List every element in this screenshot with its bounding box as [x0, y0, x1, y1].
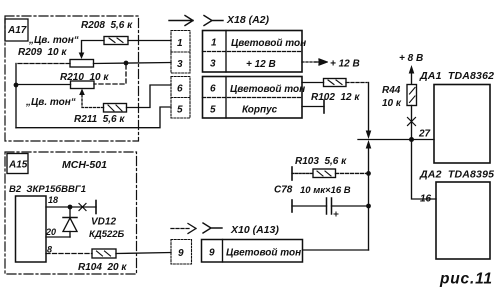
resistor R104 body — [92, 249, 116, 258]
svg-text:1: 1 — [211, 38, 217, 49]
svg-text:R208 5,6 к: R208 5,6 к — [81, 20, 133, 31]
wire R210 left to rail — [16, 84, 71, 86]
svg-text:Цветовой тон: Цветовой тон — [231, 38, 306, 49]
wire R211 right to pin 6 — [127, 85, 172, 108]
svg-text:рис.11: рис.11 — [439, 271, 493, 288]
connector plug pin column X18 — [171, 31, 190, 74]
svg-text:9: 9 — [209, 248, 215, 259]
resistor R211 body — [104, 104, 127, 113]
svg-text:6: 6 — [177, 84, 183, 95]
resistor R103 body — [313, 169, 336, 178]
svg-text:3: 3 — [177, 59, 183, 70]
svg-text:X10 (А13): X10 (А13) — [230, 224, 279, 236]
wire R102 right and down — [346, 82, 367, 84]
capacitor C78 plates — [326, 198, 328, 214]
wire pin 20 — [46, 236, 70, 238]
wiper arrow of R209 — [79, 53, 85, 60]
svg-text:КД522Б: КД522Б — [89, 229, 125, 240]
wire R44 to cross — [411, 106, 413, 140]
svg-text:9: 9 — [178, 248, 184, 259]
arrow plug X10 dashed — [171, 228, 190, 230]
terminal tick R103 — [291, 167, 293, 180]
svg-text:A15: A15 — [8, 160, 28, 171]
node junction diode top — [68, 205, 73, 210]
svg-text:В2 ЗКР15бВВГ1: В2 ЗКР15бВВГ1 — [9, 184, 86, 195]
svg-text:18: 18 — [48, 195, 58, 205]
table row line 1 — [203, 51, 303, 53]
wire C78 left — [292, 205, 327, 207]
arrow up +8 В — [411, 69, 413, 84]
connector X18 table group 1 — [203, 31, 303, 73]
cross mark pin18 — [79, 204, 86, 211]
wire R208 left to R209 wiper — [82, 41, 105, 54]
wire R209 right to pin 3 — [94, 63, 172, 64]
node junction R103 — [366, 171, 371, 176]
svg-text:10 к: 10 к — [382, 98, 402, 109]
svg-text:VD12: VD12 — [91, 217, 116, 228]
wire pin 18 — [46, 206, 96, 208]
resistor R44 body — [407, 85, 417, 106]
svg-text:3: 3 — [210, 59, 216, 70]
module A17 dash-dot border — [5, 16, 139, 141]
svg-text:10 мк×16 В: 10 мк×16 В — [300, 185, 351, 196]
socket fork symbol X10 — [203, 223, 222, 233]
connector X10 table — [202, 240, 303, 263]
svg-text:27: 27 — [418, 129, 431, 140]
svg-text:1: 1 — [177, 38, 183, 49]
wire R104 to plug 9 — [116, 253, 171, 254]
module A17 label box — [5, 19, 28, 41]
wire R103 left — [292, 172, 313, 174]
potentiometer R210 body — [71, 81, 95, 89]
wire +12 В out — [302, 61, 317, 63]
svg-text:МСН-501: МСН-501 — [62, 159, 107, 171]
svg-text:X18 (A2): X18 (A2) — [226, 14, 270, 26]
wire left rail down — [15, 64, 17, 128]
cross mark X — [408, 118, 416, 126]
arrow plug X18 — [169, 16, 193, 26]
svg-text:Корпус: Корпус — [242, 105, 278, 116]
capacitor C78 polarity mark — [334, 212, 338, 216]
resistor R102 body — [324, 79, 347, 87]
wire R210 wiper down and to R211 — [82, 95, 104, 108]
potentiometer R209 body — [70, 60, 94, 68]
diode VD12 — [69, 207, 71, 218]
svg-text:R104 20 к: R104 20 к — [78, 262, 127, 273]
IC DA2 body — [436, 182, 490, 259]
wire to pin 16 — [412, 140, 437, 200]
svg-text:Цветовой тон: Цветовой тон — [226, 248, 301, 259]
wire X10 right to vertical — [303, 249, 369, 251]
svg-text:R103 5,6 к: R103 5,6 к — [295, 156, 347, 167]
node junction pin27 — [409, 137, 414, 142]
wire vertical to X10 — [368, 147, 370, 250]
svg-text:R209 10 к: R209 10 к — [18, 47, 67, 58]
module A15 dash-dot border — [5, 152, 137, 274]
svg-text:+ 8 В: + 8 В — [399, 53, 423, 64]
svg-text:+ 12 В: + 12 В — [246, 59, 276, 70]
arrow up below node — [366, 140, 372, 149]
node junction rail at R210 — [14, 83, 19, 88]
device B2 body — [16, 196, 47, 262]
svg-text:A17: A17 — [7, 25, 27, 36]
wire Корпус terminal — [302, 106, 324, 108]
node junction R209 right — [124, 61, 129, 66]
wire bottom to pin 5 — [16, 107, 171, 128]
svg-text:С78: С78 — [274, 185, 293, 196]
resistor R208 body — [104, 37, 128, 45]
svg-text:Цветовой тон: Цветовой тон — [230, 84, 305, 95]
svg-text:+ 12 В: + 12 В — [330, 59, 360, 70]
svg-text:ДА1 TDA8362: ДА1 TDA8362 — [419, 70, 494, 82]
svg-text:6: 6 — [210, 84, 216, 95]
table divider column — [225, 31, 227, 73]
svg-text:5: 5 — [210, 105, 216, 116]
terminal tick pin18 — [95, 201, 97, 214]
svg-text:„Цв. тон“: „Цв. тон“ — [25, 97, 76, 108]
socket fork symbol X18 — [204, 16, 223, 26]
arrow down into node — [366, 131, 372, 140]
svg-text:„Цв. тон“: „Цв. тон“ — [28, 35, 79, 46]
wire pin 27 horizontal — [358, 139, 434, 141]
svg-text:R211 5,6 к: R211 5,6 к — [74, 114, 125, 125]
wire C78 right — [332, 205, 369, 207]
wiper arrow of R210 — [79, 89, 85, 96]
wire R209 left to rail — [16, 63, 70, 65]
connector X18 table group 2 — [203, 77, 303, 119]
table row line 2 — [203, 97, 303, 99]
svg-text:R102 12 к: R102 12 к — [311, 92, 360, 103]
svg-text:ДА2 TDA8395: ДА2 TDA8395 — [419, 169, 494, 181]
terminal tick C78 — [291, 200, 293, 212]
svg-text:20: 20 — [45, 227, 56, 237]
wire pin 8 to R104 — [46, 253, 92, 255]
node junction C78 — [366, 204, 371, 209]
wire row6 to R102 — [302, 82, 324, 84]
module A15 label box — [7, 154, 28, 174]
dashed link junction to R210 right — [94, 65, 126, 84]
wire R103 right — [336, 172, 369, 174]
arrow +12 В — [315, 59, 327, 65]
svg-text:R44: R44 — [382, 85, 401, 96]
plug pin 9 box — [171, 240, 192, 265]
IC DA1 body — [434, 85, 490, 164]
terminal tick Корпус — [323, 100, 325, 113]
wire R208 right to pin 1 — [128, 40, 171, 42]
svg-text:5: 5 — [177, 105, 183, 116]
svg-text:16: 16 — [420, 194, 432, 205]
